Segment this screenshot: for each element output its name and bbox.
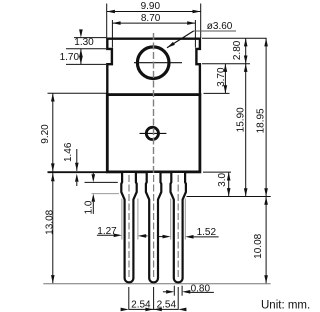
lead 1 [121, 173, 136, 282]
dimension 1.0 [85, 181, 118, 183]
svg-text:2.54: 2.54 [157, 300, 177, 311]
svg-text:2.54: 2.54 [131, 300, 151, 311]
svg-text:13.08: 13.08 [44, 209, 55, 234]
svg-text:3.70: 3.70 [216, 67, 227, 87]
lead 3 [171, 173, 186, 282]
lead 2 [146, 173, 161, 282]
svg-text:18.95: 18.95 [256, 108, 267, 133]
dimension 9.90 [107, 4, 201, 39]
dimension 0.80 [173, 286, 175, 296]
svg-text:1.52: 1.52 [197, 227, 217, 238]
dimension 2.54 pitch [128, 287, 130, 310]
dimension 1.30 [74, 37, 106, 39]
pin bottom extension line [43, 283, 270, 285]
svg-text:9.90: 9.90 [141, 1, 161, 12]
svg-text:2.80: 2.80 [232, 40, 243, 60]
svg-text:Unit: mm.: Unit: mm. [261, 300, 310, 312]
lead 1 centerline [128, 175, 130, 279]
body [107, 95, 200, 172]
svg-text:1.30: 1.30 [74, 37, 94, 48]
dimension 1.70 [80, 49, 82, 65]
mounting hole [137, 47, 169, 79]
tab outline [107, 39, 200, 96]
dimension 1.52 [170, 199, 172, 240]
small circle crosshair [140, 132, 167, 134]
dimension 9.20 [48, 92, 107, 94]
body bottom extension left [48, 171, 108, 173]
body bottom extension right [203, 171, 231, 173]
small circle [146, 127, 158, 139]
svg-text:0.80: 0.80 [191, 283, 211, 294]
dimension 2.80 [202, 37, 267, 39]
dimension 3.0 [228, 172, 230, 196]
dimension 3.70 [204, 92, 230, 94]
svg-text:1.46: 1.46 [63, 142, 74, 162]
lead 2 centerline [153, 175, 155, 279]
svg-text:1.70: 1.70 [60, 52, 80, 63]
dimension 8.70 [112, 20, 195, 48]
dimension 1.46 [76, 149, 78, 171]
hole crosshair [134, 62, 182, 64]
extension line lead plane [187, 196, 271, 198]
dimension 13.08 [52, 173, 54, 283]
dimension 18.95 [265, 38, 267, 196]
package centerline [153, 33, 155, 173]
svg-text:8.70: 8.70 [141, 13, 161, 24]
lead 3 centerline [177, 175, 179, 279]
svg-text:15.90: 15.90 [235, 107, 246, 132]
svg-text:9.20: 9.20 [40, 124, 51, 144]
svg-text:10.08: 10.08 [253, 233, 264, 258]
svg-text:ø3.60: ø3.60 [207, 21, 233, 32]
dimension 1.27 [121, 199, 123, 240]
svg-text:1.0: 1.0 [83, 200, 94, 214]
dimension 10.08 [265, 197, 267, 284]
svg-text:3.0: 3.0 [217, 173, 228, 187]
dimension 15.90 [245, 64, 247, 197]
